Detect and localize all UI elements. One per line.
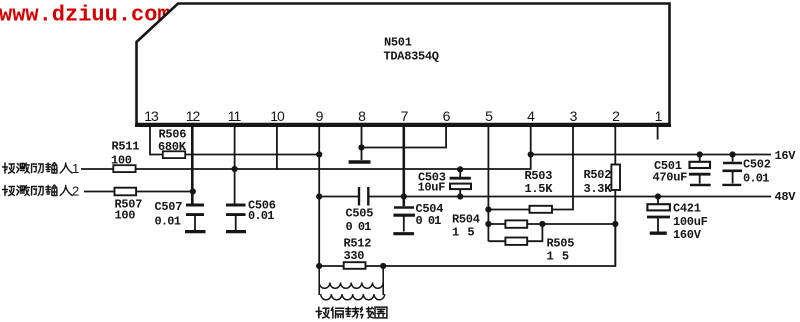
svg-text:10: 10 xyxy=(270,108,285,124)
svg-text:4: 4 xyxy=(527,108,535,124)
ground bar under C504 xyxy=(393,232,414,235)
resistor R512 xyxy=(344,262,366,269)
wire pin3 vertical xyxy=(552,127,573,210)
svg-text:0 01: 0 01 xyxy=(346,220,372,234)
wire R504 right to pin2 net xyxy=(527,223,615,225)
svg-text:100: 100 xyxy=(115,209,136,223)
svg-text:100uF: 100uF xyxy=(673,215,708,229)
svg-text:10uF: 10uF xyxy=(418,181,446,195)
svg-text:C502: C502 xyxy=(743,158,771,172)
svg-text:C505: C505 xyxy=(346,207,374,221)
op-amp U1: IC N501 TDA8354Q outline xyxy=(135,4,671,126)
svg-text:100: 100 xyxy=(111,154,132,168)
wire pin4 stub xyxy=(530,127,532,155)
wire R502 bottom vertical xyxy=(614,190,616,266)
node pin5/R504 junction xyxy=(485,221,491,227)
svg-text:R503: R503 xyxy=(525,169,553,183)
capacitor C501 xyxy=(689,151,711,185)
svg-text:C507: C507 xyxy=(155,200,183,214)
svg-text:470uF: 470uF xyxy=(653,171,688,185)
node C421/48V junction xyxy=(655,193,661,199)
svg-text:3.3K: 3.3K xyxy=(584,182,613,196)
svg-text:11: 11 xyxy=(228,108,242,124)
svg-text:6: 6 xyxy=(443,108,451,124)
capacitor C421 xyxy=(647,197,670,234)
svg-text:N501: N501 xyxy=(384,36,412,50)
wire R506 to pin9 net xyxy=(185,154,319,156)
node pin4/16V junction xyxy=(528,151,534,157)
node pin9/48V junction xyxy=(316,193,322,199)
wire coil left lead xyxy=(318,266,320,295)
wire pin7 vertical xyxy=(402,127,405,207)
svg-text:13: 13 xyxy=(144,108,159,124)
wire input1 line xyxy=(81,168,113,170)
svg-text:2: 2 xyxy=(612,108,620,124)
node input2 label 场激励输入2 xyxy=(3,185,73,196)
capacitor C507 xyxy=(186,205,204,230)
node pin12/input2 junction xyxy=(190,188,196,194)
svg-text:1 5: 1 5 xyxy=(547,250,570,264)
wire R512 right to pin2 net xyxy=(366,224,616,266)
ground bar under C507 xyxy=(185,230,206,233)
svg-text:2: 2 xyxy=(72,184,79,199)
wire pin2 stub xyxy=(614,127,616,165)
wire pin12 vertical xyxy=(191,127,194,204)
node R505 right junction xyxy=(539,221,545,227)
wire R504 left xyxy=(488,223,505,225)
capacitor C503 xyxy=(450,169,471,196)
svg-text:16V: 16V xyxy=(775,149,797,163)
wire x319 vertical to coil line xyxy=(318,197,320,267)
label deflection coil 场偏转线圈 xyxy=(316,307,387,318)
svg-text:R505: R505 xyxy=(547,237,575,251)
svg-text:0 01: 0 01 xyxy=(416,214,442,228)
node pin9/top-line junction xyxy=(316,151,322,157)
svg-text:1.5K: 1.5K xyxy=(525,182,554,196)
capacitor C506 xyxy=(226,205,246,230)
node coil-left/R512 junction xyxy=(316,263,322,269)
resistor R507 xyxy=(115,188,137,196)
svg-text:330: 330 xyxy=(344,249,365,263)
svg-text:1: 1 xyxy=(72,161,79,176)
svg-text:www.dziuu.com: www.dziuu.com xyxy=(0,3,171,28)
svg-text:0.01: 0.01 xyxy=(248,209,274,223)
node C503 top junction xyxy=(457,166,463,172)
svg-text:0.01: 0.01 xyxy=(155,215,181,229)
svg-text:160V: 160V xyxy=(673,228,702,242)
wire pin10 vertical xyxy=(276,127,278,170)
capacitor C505 xyxy=(359,187,368,206)
wire input2 line xyxy=(84,191,115,193)
resistor R504 xyxy=(505,220,527,227)
svg-text:1 5: 1 5 xyxy=(452,226,475,240)
wire 48V rail xyxy=(368,196,771,198)
svg-text:12: 12 xyxy=(186,108,201,124)
wire coil right lead xyxy=(382,266,384,295)
capacitor C502 xyxy=(722,151,742,185)
node pin2 net/R504 junction xyxy=(612,221,618,227)
wire R503 left xyxy=(488,209,529,211)
wire pin8 to pin6 xyxy=(362,127,447,148)
svg-text:C421: C421 xyxy=(673,202,701,216)
wire pin5 vertical xyxy=(487,127,489,242)
resistor R511 xyxy=(113,165,135,172)
node pin5/R503 junction xyxy=(485,206,491,212)
inductor field deflection coil row2 xyxy=(321,294,385,300)
wire pin1 stub xyxy=(657,127,659,140)
wire pin13 stub xyxy=(150,127,163,155)
wire 48V rail left segment xyxy=(319,196,358,198)
ground bar pin8 xyxy=(349,160,371,163)
capacitor C504 xyxy=(393,208,415,232)
wire R507 to pin12 xyxy=(136,191,192,193)
svg-text:48V: 48V xyxy=(775,190,797,204)
inductor field deflection coil row1 xyxy=(319,283,383,289)
svg-text:5: 5 xyxy=(485,108,493,124)
svg-text:1: 1 xyxy=(655,108,663,124)
svg-text:9: 9 xyxy=(316,108,324,124)
svg-text:TDA8354Q: TDA8354Q xyxy=(384,50,439,64)
svg-text:R511: R511 xyxy=(112,140,140,154)
resistor R503 xyxy=(530,206,553,213)
wire pin11 vertical xyxy=(234,127,236,204)
svg-text:3: 3 xyxy=(570,108,578,124)
resistor R506 xyxy=(163,151,185,158)
node pin8/pin6 junction xyxy=(358,144,364,150)
wire R505 left xyxy=(488,240,505,242)
svg-text:R502: R502 xyxy=(584,168,612,182)
resistor R502 xyxy=(611,165,620,191)
svg-text:7: 7 xyxy=(401,108,409,124)
svg-text:0.01: 0.01 xyxy=(743,172,769,186)
resistor R505 xyxy=(505,238,527,245)
node input1 label 场激励输入1 xyxy=(3,163,73,174)
svg-text:R504: R504 xyxy=(452,213,480,227)
node coil-right junction xyxy=(380,263,386,269)
node pin11/input1 junction xyxy=(232,166,238,172)
wire R512 left xyxy=(319,265,344,267)
svg-text:8: 8 xyxy=(358,108,366,124)
ground bar under C506 xyxy=(226,230,246,233)
wire pin8 stub xyxy=(361,127,363,161)
node pin7/48V junction xyxy=(401,193,407,199)
wire R505 right xyxy=(527,224,542,241)
wire input1 to pin4 branch xyxy=(136,155,531,170)
wire 16V rail xyxy=(531,154,771,156)
svg-text:680K: 680K xyxy=(158,140,187,154)
node C503 bottom junction xyxy=(457,193,463,199)
wire pin9 vertical xyxy=(318,127,320,197)
